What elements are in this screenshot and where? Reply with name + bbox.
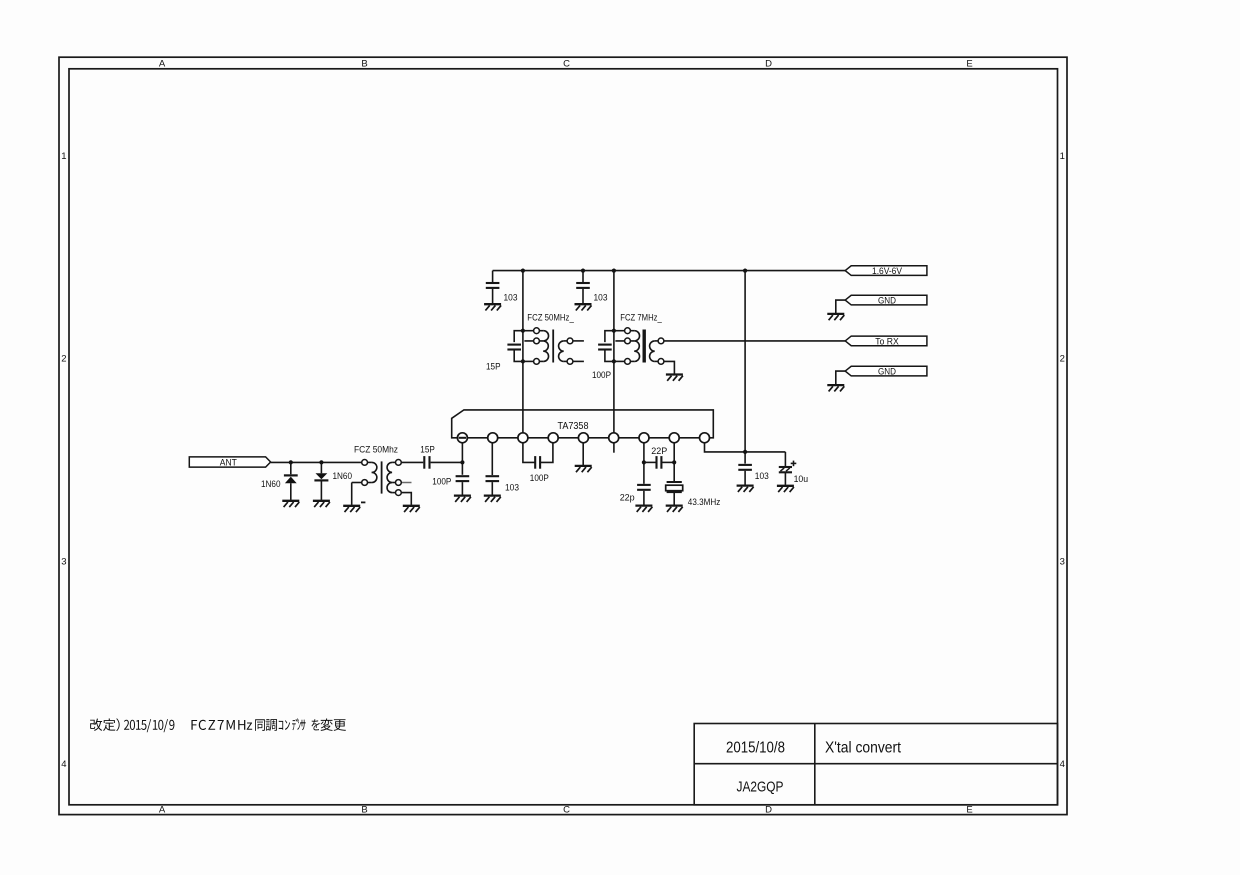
drawing frame inner border	[69, 69, 1058, 805]
capacitor 22P pins7-8	[644, 456, 674, 469]
svg-text:B: B	[361, 59, 367, 70]
junction on rail at right branch	[743, 269, 747, 273]
ground upper GND flag	[827, 313, 844, 315]
wire pin1 down to main node	[461, 443, 463, 475]
junction pin8 node	[672, 460, 676, 464]
svg-text:1: 1	[1060, 151, 1065, 162]
IC pin 4 circle	[548, 433, 558, 443]
transformer T1 FCZ 50MHz	[507, 328, 584, 364]
svg-text:22p: 22p	[620, 493, 635, 503]
svg-text:3: 3	[1060, 556, 1065, 567]
svg-text:103: 103	[594, 293, 608, 303]
IC pin 3 circle	[518, 433, 528, 443]
svg-text:C: C	[563, 805, 570, 816]
ground T2 secondary	[666, 373, 683, 375]
wire rail to pin3 through FCZ 50MHz	[522, 271, 524, 433]
IC pin 8 circle	[669, 433, 679, 443]
svg-text:1: 1	[61, 151, 66, 162]
IC pin 7 circle	[639, 433, 649, 443]
svg-text:GND: GND	[878, 296, 896, 307]
op-amp/mixer IC U1 TA7358 body	[452, 410, 714, 438]
junction on rail at C2 feed	[521, 269, 525, 273]
wire pin7 down	[643, 443, 645, 484]
svg-text:2015/10/8: 2015/10/8	[726, 739, 785, 756]
wire rail to pin6 through FCZ 7MHz	[613, 271, 615, 433]
ground pin5	[575, 465, 592, 467]
svg-text:D: D	[765, 805, 772, 816]
IC pin 5 circle	[578, 433, 588, 443]
IC pin 2 circle	[488, 433, 498, 443]
capacitor 10u electrolytic	[777, 452, 794, 492]
svg-text:1N60: 1N60	[261, 479, 281, 489]
frame column letters top	[159, 59, 973, 70]
flag GND upper	[845, 295, 927, 305]
frame row numbers right	[1060, 151, 1065, 770]
svg-text:A: A	[159, 59, 166, 70]
svg-text:A: A	[159, 805, 166, 816]
svg-text:100P: 100P	[432, 477, 451, 487]
IC pin 9 circle	[700, 433, 710, 443]
wire ANT to transformer	[271, 461, 362, 463]
junction main node pin1	[460, 460, 464, 464]
flag To RX	[845, 336, 927, 346]
svg-text:FCZ 50Mhz: FCZ 50Mhz	[354, 445, 398, 455]
svg-text:15P: 15P	[420, 445, 435, 455]
junction on rail at cap 103 #2	[581, 269, 585, 273]
flag ANT	[189, 457, 270, 467]
plus mark 10u	[791, 462, 797, 464]
title block vertical divider	[814, 724, 816, 805]
capacitor 15P series	[424, 456, 462, 469]
junction right branch	[743, 450, 747, 454]
svg-text:D: D	[765, 59, 772, 70]
svg-text:43.3MHz: 43.3MHz	[688, 497, 721, 507]
svg-text:GND: GND	[878, 367, 896, 378]
svg-text:C: C	[563, 59, 570, 70]
svg-text:100P: 100P	[592, 370, 611, 380]
capacitor 100P pins3-4	[523, 443, 553, 469]
svg-text:1.6V-6V: 1.6V-6V	[872, 266, 903, 277]
capacitor 100P at pin1	[454, 476, 471, 502]
svg-text:3: 3	[61, 556, 66, 567]
svg-text:2: 2	[61, 354, 66, 365]
wire pin8 down	[673, 443, 675, 481]
junction diode D2	[319, 460, 323, 464]
capacitor 103 at pin2	[484, 443, 501, 502]
svg-text:103: 103	[505, 482, 519, 492]
svg-text:FCZ 7MHz_: FCZ 7MHz_	[620, 312, 662, 322]
svg-text:B: B	[361, 805, 367, 816]
stub below pin6	[613, 443, 615, 453]
ground lower GND flag	[827, 384, 844, 386]
wire T2 secondary to To RX flag	[664, 340, 845, 342]
junction pin7 node	[642, 460, 646, 464]
svg-text:100P: 100P	[530, 473, 549, 483]
svg-text:FCZ 50MHz_: FCZ 50MHz_	[527, 312, 574, 322]
junction on rail at FCZ7 feed	[612, 269, 616, 273]
wire transformer secondary to 15P	[401, 461, 423, 463]
drawing frame outer border	[59, 57, 1067, 814]
svg-text:4: 4	[1060, 759, 1065, 770]
svg-text:To RX: To RX	[875, 336, 899, 347]
svg-text:ANT: ANT	[220, 457, 237, 468]
svg-text:10u: 10u	[794, 474, 809, 484]
diode D2 1N60 (cathode down)	[313, 462, 330, 507]
capacitor 103 right branch	[737, 465, 754, 492]
svg-text:22P: 22P	[651, 446, 667, 456]
svg-text:2: 2	[1060, 354, 1065, 365]
svg-text:E: E	[966, 59, 972, 70]
svg-text:X'tal convert: X'tal convert	[825, 739, 901, 756]
svg-text:103: 103	[504, 293, 518, 303]
IC pin 1 circle	[457, 433, 467, 443]
power rail wire (1.6V-6V)	[493, 270, 846, 272]
svg-text:15P: 15P	[486, 362, 501, 372]
wire GND upper flag to ground	[836, 300, 845, 313]
capacitor 103 (rail bypass #1)	[484, 271, 501, 311]
transformer T3 FCZ 50Mhz input	[343, 460, 420, 513]
svg-text:103: 103	[755, 471, 769, 481]
wire rail right branch down	[744, 271, 746, 464]
svg-text:4: 4	[61, 759, 66, 770]
crystal X1 43.3MHz	[666, 482, 683, 512]
revision note text	[90, 718, 346, 732]
capacitor 22p to ground	[635, 485, 652, 512]
svg-text:TA7358: TA7358	[558, 421, 589, 432]
IC pin 6 circle	[609, 433, 619, 443]
diode D1 1N60 (cathode up)	[282, 462, 299, 507]
transformer T2 FCZ 7MHz	[598, 328, 664, 364]
svg-text:1N60: 1N60	[333, 471, 353, 481]
capacitor 103 (rail bypass #2)	[575, 271, 592, 311]
svg-text:JA2GQP: JA2GQP	[737, 778, 784, 795]
title block box	[694, 724, 1057, 805]
wire GND lower flag to ground	[836, 371, 845, 384]
minus mark near input ground	[361, 501, 365, 503]
junction diode D1	[289, 460, 293, 464]
title block horizontal divider	[694, 763, 1057, 765]
flag GND lower	[845, 366, 927, 376]
svg-text:E: E	[966, 805, 972, 816]
flag 1.6V-6V	[845, 266, 927, 276]
wire pin5 to ground	[582, 443, 584, 465]
wire pin9 to right branch	[705, 443, 786, 452]
frame row numbers left	[61, 151, 66, 770]
frame column letters bottom	[159, 805, 973, 816]
wire T2 secondary bottom to ground	[664, 361, 675, 373]
